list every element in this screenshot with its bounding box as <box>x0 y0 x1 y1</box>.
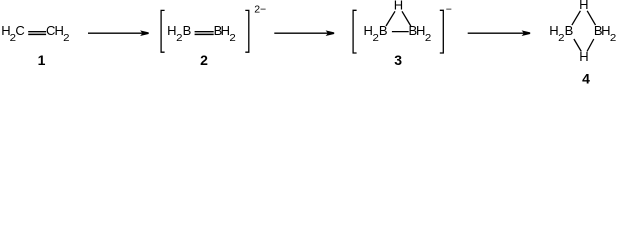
svg-text:H: H <box>363 23 372 38</box>
svg-text:H: H <box>579 49 588 64</box>
svg-text:−: − <box>446 4 452 16</box>
svg-text:H: H <box>579 0 588 12</box>
svg-text:2: 2 <box>63 32 70 44</box>
svg-text:B: B <box>565 23 574 38</box>
svg-text:2: 2 <box>200 52 208 68</box>
svg-text:4: 4 <box>582 70 590 86</box>
svg-text:2: 2 <box>229 32 236 44</box>
svg-text:H: H <box>394 0 403 13</box>
svg-text:1: 1 <box>38 52 46 68</box>
svg-text:2: 2 <box>610 32 617 44</box>
svg-text:B: B <box>379 23 388 38</box>
svg-text:H: H <box>167 23 176 38</box>
svg-text:C: C <box>15 23 24 38</box>
svg-text:B: B <box>183 23 192 38</box>
svg-text:2: 2 <box>425 32 432 44</box>
svg-text:3: 3 <box>394 52 402 68</box>
svg-text:2−: 2− <box>254 3 266 15</box>
